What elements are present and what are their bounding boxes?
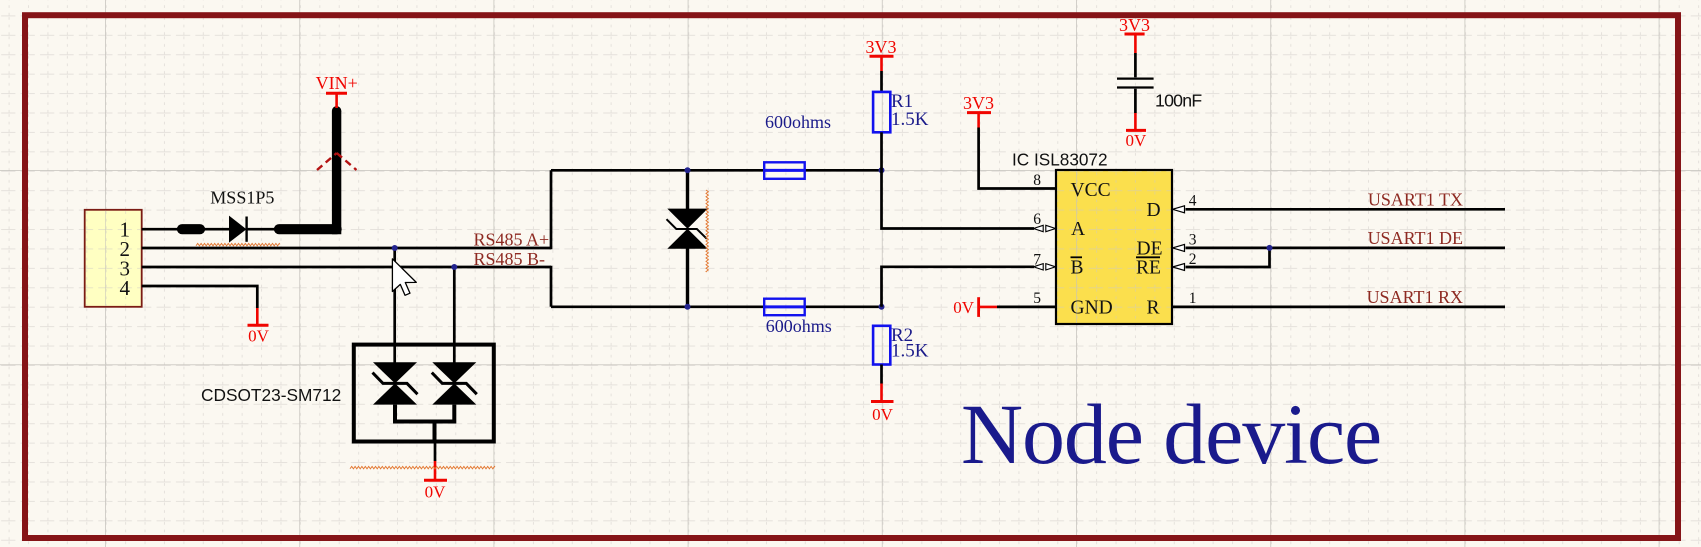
thick wire VIN+ path [279, 224, 337, 234]
IC pin 7 bidirectional arrow [1034, 264, 1056, 270]
svg-text:VIN+: VIN+ [316, 73, 358, 93]
ground 0V under TVS array [434, 461, 437, 480]
wire junction to IC pin B [882, 267, 1035, 307]
ground 0V under R2 [880, 384, 883, 402]
error squiggle under TVS array [350, 466, 495, 468]
svg-text:3V3: 3V3 [1119, 15, 1150, 35]
junction dot top bus [879, 167, 885, 173]
wire IC pin 3 USART1 DE [1186, 247, 1506, 250]
wire junction down to TVS array right [453, 267, 456, 363]
svg-text:VCC: VCC [1071, 180, 1111, 201]
connector J1 body [85, 210, 142, 307]
red dashed chevron on VIN wire [317, 153, 357, 170]
svg-text:RS485 B-: RS485 B- [474, 249, 546, 269]
TVS array CDSOT23-SM712 box [354, 345, 494, 442]
svg-text:GND: GND [1071, 298, 1113, 319]
junction dot TVS top [685, 167, 691, 173]
wire pin3 (RS485 B-) [142, 266, 551, 269]
bottom bus wire [551, 305, 882, 308]
resistor 600ohms top [764, 162, 805, 179]
svg-text:D: D [1147, 200, 1161, 221]
power port VIN+ [335, 93, 338, 108]
svg-text:A: A [1071, 219, 1085, 240]
IC pin 6 bidirectional arrow [1034, 225, 1056, 231]
svg-text:MSS1P5: MSS1P5 [210, 188, 274, 208]
svg-text:3: 3 [1189, 231, 1197, 248]
svg-text:B: B [1071, 258, 1084, 279]
TVS diode D2 center bowtie [667, 209, 708, 249]
svg-text:USART1 DE: USART1 DE [1368, 228, 1463, 248]
wire 0V to IC pin 5 [997, 306, 1056, 309]
resistor 600ohms bottom [764, 299, 805, 316]
svg-text:5: 5 [1033, 290, 1041, 307]
wire pin1 to diode [142, 228, 280, 231]
junction dot TVS bottom [685, 304, 691, 310]
wire IC pin 4 USART1 TX [1186, 208, 1506, 211]
TVS diode right bowtie [432, 362, 477, 404]
wire IC pin 1 USART1 RX [1172, 306, 1505, 309]
TVS diode left bowtie [373, 362, 418, 404]
svg-text:IC ISL83072: IC ISL83072 [1012, 150, 1108, 170]
thick wire blob on pin1 [182, 224, 200, 234]
svg-text:USART1 TX: USART1 TX [1368, 190, 1463, 210]
junction dot DE net [1267, 245, 1273, 251]
TVS internal common wires [395, 405, 454, 443]
svg-text:CDSOT23-SM712: CDSOT23-SM712 [201, 385, 341, 405]
IC pin 2 input arrow [1173, 264, 1185, 271]
diode D1 MSS1P5 [230, 217, 246, 242]
wire junction down to TVS array left [393, 248, 396, 363]
junction dot bottom bus [879, 304, 885, 310]
svg-text:3V3: 3V3 [963, 93, 994, 113]
svg-text:4: 4 [120, 276, 131, 300]
svg-text:4: 4 [1189, 193, 1197, 210]
wire R2 to ground [880, 365, 883, 384]
wire 3V3 to R1 [880, 71, 883, 92]
svg-text:0V: 0V [872, 405, 894, 424]
resistor R2 [873, 326, 890, 365]
svg-text:6: 6 [1033, 211, 1041, 228]
wire 3V3 to IC pin 8 [979, 128, 1056, 189]
svg-text:1: 1 [1189, 290, 1197, 307]
svg-text:0V: 0V [248, 327, 270, 346]
ground 0V at connector pin4 [256, 308, 259, 325]
svg-text:RS485 A+: RS485 A+ [474, 230, 550, 250]
svg-text:8: 8 [1033, 172, 1041, 189]
wire junction to IC pin A [882, 170, 1035, 228]
IC pin 3 input arrow [1173, 244, 1185, 251]
svg-text:0V: 0V [425, 483, 447, 502]
top bus wire [551, 169, 882, 172]
error squiggle right of TVS [706, 190, 708, 272]
wire IC pin 2 to junction [1186, 248, 1270, 267]
left loop verticals [550, 170, 553, 306]
resistor R1 [873, 92, 890, 132]
IC U1 ISL83072 body [1056, 170, 1172, 324]
svg-text:0V: 0V [1126, 131, 1148, 150]
mouse cursor [392, 259, 416, 296]
wire pin2 (RS485 A+) [142, 247, 551, 250]
wire R1 to junction [880, 132, 883, 170]
svg-text:600ohms: 600ohms [765, 112, 831, 132]
wire pin4 [142, 286, 258, 308]
svg-text:100nF: 100nF [1155, 91, 1202, 111]
junction dot pin3 [451, 264, 457, 270]
svg-text:Node device: Node device [961, 386, 1381, 482]
svg-text:1.5K: 1.5K [891, 109, 929, 130]
svg-text:0V: 0V [953, 298, 975, 317]
wire TVS common to ground [434, 443, 437, 461]
junction dot pin2 [392, 245, 398, 251]
IC pin 4 input arrow [1173, 206, 1185, 213]
svg-text:600ohms: 600ohms [766, 316, 832, 336]
svg-text:2: 2 [1189, 251, 1197, 268]
svg-text:3V3: 3V3 [866, 37, 897, 57]
svg-text:1.5K: 1.5K [891, 341, 929, 362]
svg-text:R: R [1147, 298, 1160, 319]
svg-text:RE: RE [1136, 258, 1161, 279]
error squiggle under diode [196, 243, 280, 245]
TVS diode D2 (center bowtie) wires [686, 170, 689, 306]
svg-text:USART1 RX: USART1 RX [1367, 287, 1463, 307]
